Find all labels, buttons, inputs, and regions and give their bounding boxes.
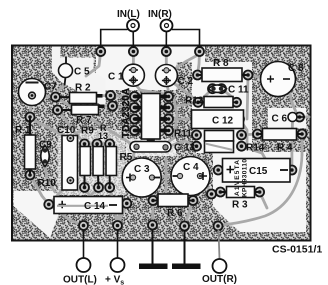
capacitor C8 (261, 62, 296, 97)
pad IC1 pin4 (130, 126, 139, 135)
pad R7 left (53, 106, 62, 115)
capacitor C10 (62, 135, 78, 190)
wire IN(R) right branch (172, 30, 200, 49)
terminal +Vs (111, 258, 125, 272)
trace pad +Vs up (118, 203, 127, 225)
pad R14 right (237, 142, 246, 151)
resistor R7 (61, 105, 105, 115)
trace R8 right down (247, 75, 248, 119)
svg-text:R 3: R 3 (232, 200, 248, 211)
pad C8 plus (266, 75, 275, 84)
svg-text:KPH930110: KPH930110 (242, 159, 249, 197)
pad IC1 pin7 (164, 103, 173, 112)
svg-text:R 4: R 4 (277, 143, 293, 154)
trace IC right column (160, 98, 177, 147)
trace C15 right up to C6 (290, 122, 293, 170)
speaker bar 2 (172, 264, 201, 270)
svg-text:C9: C9 (39, 140, 52, 151)
svg-text:C 3: C 3 (134, 164, 150, 175)
trace cluster bottoms to C14 (85, 187, 99, 196)
trace C4 to R3 (201, 176, 221, 194)
resistor R14 (205, 141, 234, 153)
svg-text:OUT(R): OUT(R) (202, 274, 237, 285)
pad R9 top (80, 139, 89, 148)
pad R4 right (298, 130, 307, 139)
pad C14 left (44, 200, 53, 209)
IC1 pins (135, 95, 168, 133)
wire speaker2 (184, 230, 186, 264)
pad R14 left (192, 142, 201, 151)
terminal IN(L) (127, 20, 139, 32)
pad R6 right (189, 196, 198, 205)
pad R1 top (26, 113, 35, 122)
svg-text:C 13: C 13 (174, 143, 196, 154)
svg-text:+ Vs: + Vs (105, 275, 124, 285)
svg-text:R11: R11 (174, 129, 192, 140)
stipple corner triangle bottom left (14, 207, 50, 240)
capacitor C15 (223, 159, 291, 183)
pad R6 left (149, 196, 158, 205)
pad IC1 pin8 (164, 92, 173, 101)
IC1 TDA2320A body (142, 94, 161, 144)
svg-text:R14: R14 (246, 143, 265, 154)
pad IC1 pin2 (130, 103, 139, 112)
pad bottom spk2 (180, 222, 189, 231)
trace C14 left to OUT(L) pad (49, 204, 84, 225)
pad C15 right (287, 166, 296, 175)
svg-text:TDA2320A: TDA2320A (121, 88, 132, 138)
trace R7 right to IC pin2 (103, 106, 134, 108)
speaker bar 1 (139, 264, 168, 270)
trace R2 left diagonal to C13 (56, 97, 135, 147)
trace C10 down to C14 (49, 180, 71, 204)
pad bottom +Vs (113, 221, 122, 230)
trace C1 to IC pin8 (133, 81, 169, 97)
trace R4 right to arc (301, 134, 304, 155)
resistor R6 (153, 194, 193, 207)
svg-text:C 1: C 1 (108, 72, 124, 83)
pad top4 (195, 47, 204, 56)
pad R11 right (237, 131, 246, 140)
capacitor C3 (122, 158, 161, 197)
pad R2 right (106, 91, 115, 100)
wire OUT(L) (83, 230, 85, 258)
trace C5 down (56, 85, 65, 97)
trace C11 right down (222, 89, 237, 103)
pad R7 right (108, 102, 117, 111)
resistor R9 (80, 144, 91, 188)
trace R11 right to R4 (242, 134, 258, 135)
trace R3 to arc (260, 192, 267, 208)
trace C2 to R12 (172, 82, 198, 102)
pad R9 bottom (80, 183, 89, 192)
pad R3 right (255, 188, 264, 197)
svg-text:13: 13 (98, 131, 108, 141)
resistor R2 (59, 93, 103, 104)
capacitor C4 (171, 157, 210, 196)
resistor R5 (106, 144, 117, 188)
white region around C5 R2 R7 (52, 47, 106, 108)
pad R11 left (192, 131, 201, 140)
resistor R4 (258, 129, 303, 141)
trace C6 to edge (297, 116, 309, 119)
svg-text:CS-0151/1: CS-0151/1 (272, 244, 322, 256)
trace C13 down to C3 (132, 147, 136, 177)
svg-text:R9: R9 (81, 126, 94, 137)
wire IN(L) down (132, 32, 134, 49)
svg-text:A1VE5TA: A1VE5TA (234, 160, 241, 196)
pad C8 minus (282, 75, 291, 84)
svg-text:C 14: C 14 (84, 201, 106, 212)
terminal OUT(L) (77, 258, 91, 272)
white region around top pads C1 C2 (96, 47, 205, 91)
svg-text:R 1: R 1 (15, 125, 31, 136)
svg-text:C7: C7 (44, 82, 57, 93)
trace big arc to OUT(R) pad (218, 155, 302, 226)
capacitor C13 wire link (130, 142, 171, 153)
resistor R8 (198, 68, 249, 82)
trace C2 to R8 (173, 56, 196, 70)
capacitor C14 (54, 197, 123, 214)
svg-text:IN(R): IN(R) (148, 9, 172, 20)
terminal OUT(R) (213, 259, 227, 273)
PCB board outline (12, 46, 311, 241)
svg-text:C 2: C 2 (178, 76, 194, 87)
svg-text:C 8: C 8 (288, 63, 304, 74)
trace R5 bottom down (110, 187, 118, 225)
trace C3 to C4 (152, 176, 175, 177)
trace R9 strike (78, 127, 95, 132)
white region around C6 (268, 108, 306, 128)
pad R12 left (194, 98, 203, 107)
white region bottom left (14, 191, 61, 238)
pad R12 right (232, 98, 241, 107)
trace under C14 label (57, 204, 120, 207)
trace R8 to C8 (248, 75, 271, 79)
pad R5 top (105, 139, 114, 148)
pad IC1 pin3 (130, 115, 139, 124)
svg-text:OUT(L): OUT(L) (63, 275, 97, 285)
svg-text:C10: C10 (57, 125, 76, 136)
trace C2 down to IC (166, 81, 168, 97)
pad IC1 pin1 (130, 92, 139, 101)
trace R14 right to C15 (242, 146, 267, 160)
pad R3 left (216, 188, 225, 197)
pad node C4-R3 (207, 190, 216, 199)
capacitor C7 (19, 79, 46, 106)
trace pad1 to C5 area (86, 52, 101, 77)
trace pad2 to C1 (132, 52, 135, 66)
svg-text:R 6: R 6 (167, 208, 183, 219)
resistor R12 (198, 97, 237, 108)
trace between C3 C4 vertical (165, 158, 168, 196)
capacitor C12 (192, 110, 244, 129)
trace C11 to R12 (198, 89, 213, 103)
trace C12 to IC pin6 (169, 118, 196, 121)
pad bottom OUT(R) (214, 222, 223, 231)
svg-text:R12: R12 (185, 96, 204, 107)
pad C12 left (191, 115, 200, 124)
svg-text:C15: C15 (249, 166, 268, 177)
resistor R11 (205, 131, 234, 142)
trace through C14 label (57, 205, 108, 207)
pad bottom spk1 (148, 221, 157, 230)
pad R8 left (193, 71, 202, 80)
white region bottom right (213, 152, 306, 232)
capacitor C11 lens (209, 85, 227, 93)
svg-text:C 5: C 5 (74, 67, 90, 78)
svg-text:C 4: C 4 (183, 162, 199, 173)
svg-text:C 11: C 11 (228, 85, 249, 96)
wire IN(R) down (165, 32, 167, 49)
svg-text:R 7: R 7 (76, 115, 92, 126)
trace R11 to IC pin5 (169, 131, 197, 136)
pad C11 right (217, 84, 226, 93)
trace R6 left to pad (151, 201, 154, 226)
trace pad3 to C2 (165, 52, 168, 66)
svg-text:IN(L): IN(L) (117, 9, 140, 20)
trace R1 diagonal to C10 (32, 119, 62, 135)
white region around R8 C11 R12 C12 (192, 62, 252, 153)
pad bottom OUT(L) (79, 221, 88, 230)
wire speaker1 (152, 230, 154, 264)
pad IC1 pin6 (164, 115, 173, 124)
pad R13 top (93, 139, 102, 148)
pad R13 bottom (94, 183, 103, 192)
trace R1 bottom to C14 (30, 175, 49, 204)
pad top1 (96, 47, 105, 56)
pad IC1 pin5 (164, 126, 173, 135)
pad C11 left (208, 84, 217, 93)
trace R6 right to pad (185, 201, 194, 227)
pad C14 right (122, 199, 131, 208)
pad C12 right (235, 115, 244, 124)
trace C12 right down to R14 (240, 119, 248, 146)
trace R2 right to IC pin1 (101, 96, 134, 97)
trace R1 to C7 (30, 96, 32, 118)
capacitor C2 (155, 65, 177, 87)
trace pad4 to R8 (198, 52, 200, 76)
resistor R1 (25, 117, 36, 175)
trace C8 to C6 (287, 79, 297, 112)
wire +Vs (117, 230, 119, 258)
white region around C13 (126, 139, 176, 156)
wire OUT(R) (219, 230, 220, 259)
pad top2 (129, 47, 138, 56)
pad C6 lead (295, 113, 304, 122)
resistor R3 (220, 187, 259, 198)
trace R7 left diagonal to cluster (58, 110, 85, 144)
pad top3 (162, 47, 171, 56)
trace C7 to R2 (32, 96, 56, 98)
capacitor C6 (288, 113, 305, 122)
pad R2 left (51, 93, 60, 102)
trace C13 to R11 (166, 141, 197, 147)
svg-text:R10: R10 (38, 178, 57, 189)
trace C9 to C14 area (45, 164, 55, 192)
svg-text:R 2: R 2 (75, 83, 91, 94)
wire IN(L) left branch (101, 30, 128, 49)
resistor R13 (93, 144, 104, 188)
svg-text:C 12: C 12 (212, 116, 234, 127)
svg-text:C 6: C 6 (272, 114, 288, 125)
pad C15 left (214, 166, 223, 175)
capacitor C1 (122, 64, 144, 86)
terminal IN(R) (161, 20, 173, 32)
trace C14 right to +Vs pad (118, 203, 127, 225)
white region resistor cluster (58, 130, 125, 195)
trace cluster top interconnect (85, 142, 110, 145)
capacitor C5 (59, 57, 73, 86)
capacitor C9 lens (41, 146, 50, 167)
pad R5 bottom (105, 183, 114, 192)
pad R1 bottom (26, 171, 35, 180)
svg-text:R 8: R 8 (213, 58, 229, 69)
pad R4 left (253, 130, 262, 139)
pad R8 right (244, 71, 253, 80)
trace R12 to IC pin7 (169, 102, 199, 107)
